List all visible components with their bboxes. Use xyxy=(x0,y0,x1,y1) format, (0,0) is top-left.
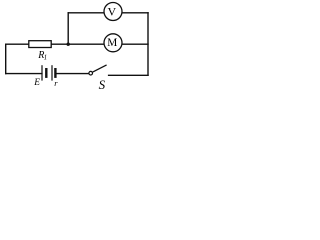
battery cell 1 long plate xyxy=(41,65,43,80)
battery cell 1 short thick plate xyxy=(45,68,47,78)
battery cell 2 long plate xyxy=(51,65,53,80)
battery cell 2 short thick plate xyxy=(54,68,56,78)
wire middle right (motor to right rail) xyxy=(121,43,148,45)
background xyxy=(0,0,153,94)
node junction dot xyxy=(67,43,70,46)
motor M circle xyxy=(104,34,122,52)
svg-text:S: S xyxy=(99,77,106,92)
svg-text:1: 1 xyxy=(44,54,48,62)
wire bottom right (switch to right rail) xyxy=(109,74,148,76)
wire top horizontal left (node to voltmeter) xyxy=(68,12,105,14)
svg-text:E: E xyxy=(33,78,40,88)
switch lever xyxy=(92,65,106,72)
resistor R1 box xyxy=(29,41,51,48)
wire right rail vertical xyxy=(147,13,149,76)
wire battery row left (left rail to battery) xyxy=(6,73,42,75)
switch pivot circle xyxy=(89,71,93,75)
wire middle left stub (left rail to R1) xyxy=(6,43,29,45)
wire left rail vertical xyxy=(5,44,7,73)
wire vertical from top corner to middle junction xyxy=(67,13,69,44)
wire battery to switch xyxy=(56,73,88,75)
wire middle (R1 to junction to motor) xyxy=(51,43,105,45)
svg-text:V: V xyxy=(107,5,116,19)
svg-text:M: M xyxy=(107,37,117,49)
wire top horizontal right (voltmeter to right rail) xyxy=(121,12,148,14)
voltmeter V circle xyxy=(104,3,122,21)
